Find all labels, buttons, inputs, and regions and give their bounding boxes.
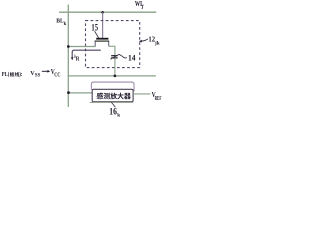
svg-text:k: k bbox=[64, 22, 67, 27]
svg-text:k: k bbox=[117, 113, 120, 119]
label PL(板线): V_SS to V_CC bbox=[2, 68, 61, 79]
wire: BL to drain bbox=[68, 46, 95, 48]
memory cell dashed box 12_jk bbox=[86, 21, 140, 68]
transistor 15: channel bar bbox=[95, 40, 110, 42]
label 12_jk with pointer bbox=[139, 35, 160, 46]
sense amplifier outer outline bbox=[91, 82, 134, 91]
svg-text:):: ): bbox=[19, 71, 22, 79]
wire: capacitor to plate line bbox=[114, 58, 116, 76]
sense amplifier box lower scan artifact line bbox=[90, 102, 133, 104]
svg-text:SS: SS bbox=[35, 72, 41, 78]
label BL_k bbox=[56, 18, 66, 27]
plate line PL bbox=[68, 75, 156, 77]
sense amplifier box 16_k bbox=[92, 89, 133, 101]
node: BL junction bbox=[67, 45, 70, 48]
svg-text:PL(: PL( bbox=[2, 71, 10, 79]
transistor 15: gate bar bbox=[96, 38, 108, 40]
word line WL_j bbox=[59, 11, 156, 13]
label WL_j bbox=[135, 0, 144, 10]
wire: BL to sense amplifier bbox=[68, 92, 92, 94]
leader line for 15 bbox=[95, 31, 99, 38]
node: capacitor to PL junction bbox=[114, 75, 117, 78]
label V_REF bbox=[152, 91, 162, 102]
svg-text:R: R bbox=[76, 56, 81, 63]
node: WL to gate junction bbox=[101, 11, 104, 14]
svg-text:jk: jk bbox=[154, 41, 160, 47]
leader line for 14 through capacitor bbox=[110, 54, 127, 59]
leader line for 16 bbox=[111, 102, 115, 107]
wire: sense amp to V_REF bbox=[133, 93, 150, 95]
wire: gate drop from WL bbox=[102, 12, 104, 38]
capacitor 14: top plate bbox=[111, 55, 117, 57]
svg-text:j: j bbox=[141, 5, 144, 10]
node: BL to sense amp junction bbox=[67, 91, 70, 94]
transistor 15: drain lead bbox=[94, 42, 96, 47]
label 感测放大器 (sense amplifier) bbox=[97, 93, 131, 100]
svg-text:CC: CC bbox=[54, 72, 60, 79]
transistor 15: source lead bbox=[108, 42, 110, 47]
bit line BL_k bbox=[67, 5, 69, 107]
capacitor 14: bottom plate bbox=[111, 57, 117, 59]
label 16_k bbox=[109, 106, 120, 119]
svg-text:REF: REF bbox=[155, 95, 162, 102]
read current arrow i_R bbox=[71, 50, 101, 63]
wire: source to capacitor bbox=[109, 46, 115, 55]
svg-text:14: 14 bbox=[128, 53, 136, 62]
